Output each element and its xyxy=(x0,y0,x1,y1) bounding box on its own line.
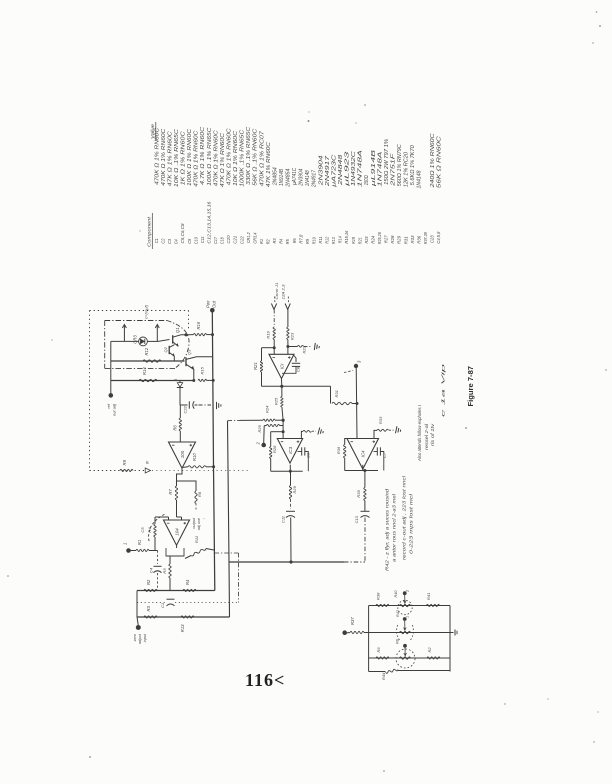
IC4 right pin to ground R33 xyxy=(374,430,377,438)
svg-text:R23: R23 xyxy=(364,236,369,243)
svg-text:↓: ↓ xyxy=(202,518,206,520)
up arrow (dashed link) right xyxy=(156,325,158,342)
svg-text:10K Ω .1% RN65C: 10K Ω .1% RN65C xyxy=(174,129,180,188)
svg-text:C3: C3 xyxy=(167,239,172,244)
svg-text:1: 1 xyxy=(123,543,128,545)
svg-text:C7: C7 xyxy=(382,452,387,458)
feedback bottom wire xyxy=(262,385,282,387)
IC4 input vertical xyxy=(355,366,358,439)
svg-text:input: input xyxy=(143,633,147,642)
svg-text:R1: R1 xyxy=(259,239,264,244)
svg-text:C21: C21 xyxy=(233,235,238,243)
resistor R14 xyxy=(139,379,157,381)
pot wiper arrow on dotted line xyxy=(145,468,150,473)
svg-text:R8: R8 xyxy=(197,491,202,497)
resistor R2 xyxy=(144,589,157,591)
ground at IC4 xyxy=(395,426,401,434)
svg-text:Pwr: Pwr xyxy=(206,300,211,308)
svg-text:R19: R19 xyxy=(351,237,356,244)
svg-text:CR1,2: CR1,2 xyxy=(246,232,251,243)
capacitor C1 xyxy=(167,598,175,600)
svg-text:output: output xyxy=(192,517,196,529)
svg-text:R37: R37 xyxy=(350,617,355,625)
svg-text:R2: R2 xyxy=(146,579,151,585)
node 2 terminal xyxy=(263,426,266,443)
svg-text:Q2: Q2 xyxy=(163,346,168,352)
resistor R4 vertical xyxy=(154,537,156,551)
IC3 right pin to ground R27 xyxy=(301,431,303,438)
svg-text:2N4917: 2N4917 xyxy=(312,170,318,188)
resistor R31 xyxy=(332,402,352,404)
svg-text:R29: R29 xyxy=(397,236,402,244)
svg-text:12A 2,3: 12A 2,3 xyxy=(281,284,286,300)
ground at IC3 xyxy=(318,428,324,436)
svg-text:CR3: CR3 xyxy=(133,335,138,344)
svg-text:C2: C2 xyxy=(161,238,166,243)
scan noise specks xyxy=(596,11,598,13)
svg-text:R4: R4 xyxy=(279,238,284,243)
svg-text:330K Ω .1% RN65C: 330K Ω .1% RN65C xyxy=(246,126,252,184)
main vertical bus wire xyxy=(212,310,215,590)
svg-text:150Ω: 150Ω xyxy=(364,175,370,185)
svg-text:Out: Out xyxy=(212,300,217,308)
svg-text:R11: R11 xyxy=(318,236,323,243)
resistor R9 in dotted line xyxy=(120,469,133,471)
dashed wire with C4 xyxy=(157,551,159,565)
svg-text:R21: R21 xyxy=(253,362,258,370)
pot R40 top xyxy=(400,604,411,606)
resistor R13 xyxy=(181,616,194,618)
outer dotted enclosure box xyxy=(90,310,189,312)
input pin chevron left xyxy=(271,304,276,310)
svg-text:1K Ω 1% RN60C: 1K Ω 1% RN60C xyxy=(181,131,187,186)
dash-dot wire down to LH1 xyxy=(364,518,366,562)
svg-text:Q3: Q3 xyxy=(187,349,192,355)
svg-text:R13: R13 xyxy=(331,237,336,244)
transistor Q1 darlington pair xyxy=(172,335,174,343)
dotted wiper continuation to C-network xyxy=(152,470,248,472)
svg-text:R5: R5 xyxy=(285,239,290,244)
left vertical wire of transistor block xyxy=(110,341,112,395)
svg-text:μA723C: μA723C xyxy=(331,154,337,188)
svg-text:C22: C22 xyxy=(239,236,244,244)
svg-text:0-223 mps lost mcl: 0-223 mps lost mcl xyxy=(409,492,414,554)
svg-text:R9: R9 xyxy=(122,459,127,465)
svg-text:ICI: ICI xyxy=(279,363,284,369)
svg-text:out adj: out adj xyxy=(112,404,117,416)
svg-text:C12,C13,14,15,16: C12,C13,14,15,16 xyxy=(207,201,212,243)
svg-text:470K Ω 1% RN60C: 470K Ω 1% RN60C xyxy=(194,130,200,186)
op-amp IC2B xyxy=(169,442,196,468)
svg-text:C6: C6 xyxy=(306,452,311,458)
svg-text:2N4848: 2N4848 xyxy=(338,155,344,187)
svg-text:R13: R13 xyxy=(180,624,185,632)
svg-text:adjust: adjust xyxy=(138,633,142,644)
svg-text:R28: R28 xyxy=(272,445,277,453)
branch to output adjust R8 xyxy=(177,481,197,491)
feedback resistor R36 xyxy=(345,439,347,445)
lower network row 2 xyxy=(137,616,230,618)
resistor R43 xyxy=(376,657,389,659)
pot R42 middle xyxy=(400,631,411,633)
IC3 input wire xyxy=(282,420,284,438)
svg-text:R19: R19 xyxy=(266,331,271,339)
capacitor C13 xyxy=(361,510,370,512)
svg-text:Also attends follow expholes I: Also attends follow expholes I xyxy=(417,404,422,462)
input terminal lower xyxy=(136,625,141,630)
svg-text:c=(mμf): c=(mμf) xyxy=(144,304,149,319)
svg-text:R11: R11 xyxy=(194,536,199,543)
svg-text:C22: C22 xyxy=(183,405,188,413)
left vertical of lower network xyxy=(136,591,138,618)
svg-text:470K Ω 1% RN60C: 470K Ω 1% RN60C xyxy=(161,128,167,185)
svg-text:2N4854: 2N4854 xyxy=(272,167,278,186)
ground at IC1 pin xyxy=(314,343,319,351)
svg-text:record c-out adj , 223 lost nn: record c-out adj , 223 lost nncl xyxy=(402,475,407,560)
svg-text:R39: R39 xyxy=(356,490,361,498)
svg-text:R3: R3 xyxy=(272,238,277,243)
resistor R7 xyxy=(175,486,177,500)
wire R12 row / Q2 base-collector xyxy=(111,360,185,362)
IC4 bottom loop xyxy=(345,470,378,472)
svg-text:R28: R28 xyxy=(390,235,395,243)
svg-text:C8: C8 xyxy=(296,366,301,372)
svg-text:adj use: adj use xyxy=(197,518,201,530)
svg-text:R1: R1 xyxy=(137,540,142,545)
svg-text:116<: 116< xyxy=(245,670,285,690)
svg-text:C20: C20 xyxy=(226,235,231,243)
svg-text:R12: R12 xyxy=(144,347,149,355)
svg-text:R7,8: R7,8 xyxy=(298,234,303,243)
node 3 terminal xyxy=(354,364,358,368)
svg-text:12K 1% RC20: 12K 1% RC20 xyxy=(404,152,410,187)
svg-text:2N3904: 2N3904 xyxy=(299,168,305,186)
svg-text:R6: R6 xyxy=(376,647,381,653)
svg-text:R26: R26 xyxy=(257,424,262,432)
wire lower row xyxy=(111,380,194,382)
svg-text:c 1a Vip: c 1a Vip xyxy=(441,363,446,417)
resistor R41 xyxy=(427,604,440,606)
svg-text:R3: R3 xyxy=(146,605,151,611)
svg-text:47K Ω 1% RN60C: 47K Ω 1% RN60C xyxy=(220,133,226,188)
IC3 feedback top wire xyxy=(271,431,283,433)
svg-text:105: 105 xyxy=(180,450,185,458)
IC4 output chain R39 xyxy=(364,471,366,488)
svg-text:100K Ω 1% RN60C: 100K Ω 1% RN60C xyxy=(187,129,193,186)
svg-text:R7: R7 xyxy=(168,489,173,495)
svg-text:470K Ω 1% RN60C: 470K Ω 1% RN60C xyxy=(213,130,219,186)
bridge right vertical xyxy=(449,606,451,672)
svg-text:rls of 1tv: rls of 1tv xyxy=(430,423,435,446)
svg-text:47K Ω 1% RN60C: 47K Ω 1% RN60C xyxy=(167,131,173,187)
svg-text:R6: R6 xyxy=(292,238,297,243)
pot R45 bottom xyxy=(400,657,411,659)
op-amp IC4 xyxy=(347,439,379,470)
svg-text:470K Ω 1% RN60C: 470K Ω 1% RN60C xyxy=(154,127,160,184)
svg-text:4.7K Ω 1% RN60C: 4.7K Ω 1% RN60C xyxy=(200,126,206,185)
power output terminal xyxy=(210,308,215,313)
input pin chevron right xyxy=(285,304,290,310)
capacitor C22 to ground xyxy=(180,404,188,406)
svg-text:R41: R41 xyxy=(426,593,431,600)
bridge mid-row right terminal xyxy=(450,632,454,634)
svg-text:R37,39: R37,39 xyxy=(423,232,428,244)
svg-text:R23: R23 xyxy=(290,332,295,340)
resistor R3 xyxy=(144,616,157,618)
svg-text:Component: Component xyxy=(147,216,153,247)
svg-text:R5: R5 xyxy=(162,568,167,574)
svg-text:104: 104 xyxy=(174,528,179,536)
IC3 output chain R29 xyxy=(290,471,292,485)
svg-text:R27: R27 xyxy=(384,235,389,243)
feedback resistor R21 xyxy=(261,348,263,361)
resistor R12b xyxy=(183,589,196,591)
svg-text:10K Ω 1% RN60C: 10K Ω 1% RN60C xyxy=(233,130,239,186)
feedback wire top IC1A xyxy=(262,347,275,349)
resistor R37 xyxy=(350,631,364,633)
svg-text:56K Ω RN60C: 56K Ω RN60C xyxy=(436,136,442,189)
svg-text:R24: R24 xyxy=(265,405,270,413)
junction dot xyxy=(192,379,195,382)
svg-text:1N4932C: 1N4932C xyxy=(351,151,357,187)
svg-text:μL923: μL923 xyxy=(345,151,351,188)
svg-text:R12: R12 xyxy=(325,236,330,243)
svg-text:R2: R2 xyxy=(266,239,271,244)
svg-text:C5,C6,C8: C5,C6,C8 xyxy=(180,223,185,243)
resistor R10 to bus xyxy=(182,466,188,469)
svg-text:R38: R38 xyxy=(376,592,381,600)
wire to ground right xyxy=(288,346,298,348)
svg-text:R33: R33 xyxy=(410,235,415,243)
svg-text:R14: R14 xyxy=(338,236,343,243)
svg-text:IC4: IC4 xyxy=(361,450,366,457)
svg-text:5.6KΩ 1% 7K70: 5.6KΩ 1% 7K70 xyxy=(410,145,416,185)
svg-text:CR3,4: CR3,4 xyxy=(252,232,257,243)
op-amp IC1 xyxy=(269,354,294,378)
transistor Q3 xyxy=(185,357,187,366)
IC3 bottom loop wire xyxy=(271,470,303,472)
svg-text:a antor rous nncl 2-a3 mel: a antor rous nncl 2-a3 mel xyxy=(392,493,397,562)
svg-text:560Ω 1% RN79C: 560Ω 1% RN79C xyxy=(397,144,403,186)
dash-dot branch xyxy=(215,552,239,554)
svg-text:150Ω 2W 797 1%: 150Ω 2W 797 1% xyxy=(384,138,390,185)
svg-text:R33: R33 xyxy=(378,416,383,424)
junction dots at op-amp inputs xyxy=(273,346,276,349)
feedback resistor R28 xyxy=(270,432,272,447)
op-amp IC3 xyxy=(277,439,302,464)
svg-text:1N748A: 1N748A xyxy=(358,149,364,187)
bridge middle row xyxy=(369,632,450,634)
resistor R16 xyxy=(194,333,207,335)
resistor R5 vertical xyxy=(169,556,171,564)
svg-text:1N914B: 1N914B xyxy=(279,168,285,186)
resistor R15 xyxy=(198,379,207,381)
svg-text:C18: C18 xyxy=(220,237,225,244)
svg-text:R31: R31 xyxy=(403,236,408,244)
svg-text:IC3: IC3 xyxy=(288,446,293,453)
input terminal R37 xyxy=(342,630,347,635)
svg-text:R42: R42 xyxy=(396,609,400,617)
svg-text:C4: C4 xyxy=(149,567,154,573)
svg-text:R6: R6 xyxy=(173,425,178,431)
svg-text:R44: R44 xyxy=(381,672,386,680)
svg-text:R4: R4 xyxy=(185,579,190,585)
resistor R23 vertical xyxy=(287,310,289,328)
capacitor C4 xyxy=(154,565,162,567)
inner dash-dot module boundary xyxy=(105,320,167,322)
zener CR4 xyxy=(179,381,181,383)
ground symbol at C22 xyxy=(217,402,221,409)
svg-text:C5: C5 xyxy=(140,527,145,533)
svg-text:R10: R10 xyxy=(311,237,316,244)
svg-text:C9: C9 xyxy=(187,238,192,243)
svg-text:R25,26: R25,26 xyxy=(377,232,382,244)
op-amp IC1A xyxy=(177,516,182,518)
svg-text:R42 - z flyr, adj a suces rou: R42 - z flyr, adj a suces rousind xyxy=(385,488,390,571)
wire from IC1 output to R31 xyxy=(330,386,332,403)
svg-text:C11: C11 xyxy=(281,516,286,523)
junction dot Q1 collector xyxy=(184,333,187,336)
svg-text:C11: C11 xyxy=(200,236,205,243)
svg-text:2N4854: 2N4854 xyxy=(286,168,292,187)
resistor R25 vertical xyxy=(281,386,283,396)
svg-text:1: 1 xyxy=(406,616,410,618)
svg-text:R40: R40 xyxy=(394,590,398,598)
svg-text:R15: R15 xyxy=(200,366,205,374)
long horizontal wire LH1 xyxy=(229,561,344,563)
resistor R26 row xyxy=(264,425,266,427)
wire CR3 row xyxy=(111,340,139,342)
svg-text:47K 1% RN60C: 47K 1% RN60C xyxy=(266,142,272,187)
resistor R1 xyxy=(131,550,137,552)
svg-text:C17: C17 xyxy=(213,237,218,244)
svg-text:C1: C1 xyxy=(160,603,165,608)
svg-text:R9: R9 xyxy=(305,239,310,244)
svg-text:470K Ω 1% RC07: 470K Ω 1% RC07 xyxy=(259,131,265,186)
svg-text:100K Ω .1% RN65C: 100K Ω .1% RN65C xyxy=(207,127,213,185)
diode CR3 xyxy=(139,337,148,346)
reference output terminal xyxy=(109,393,114,398)
svg-text:C13: C13 xyxy=(354,515,359,523)
svg-text:1000K .1% RN65C: 1000K .1% RN65C xyxy=(240,129,246,187)
right vertical dash-dot bus xyxy=(228,421,230,617)
compensation capacitor C7 xyxy=(376,447,378,455)
svg-text:R25: R25 xyxy=(274,397,279,405)
junction of IC3 output at LH1 xyxy=(289,560,292,563)
svg-text:2N3904: 2N3904 xyxy=(318,155,324,187)
svg-text:zero: zero xyxy=(133,634,137,642)
svg-text:R24: R24 xyxy=(371,235,376,243)
svg-text:R16: R16 xyxy=(196,321,201,329)
compensation capacitor C6 xyxy=(301,447,303,455)
svg-text:μA741C: μA741C xyxy=(292,168,298,186)
terminal 1 input xyxy=(126,548,131,553)
dotted middle row with C1 xyxy=(137,602,166,604)
bridge left vertical xyxy=(368,606,370,672)
svg-text:1N4148: 1N4148 xyxy=(417,170,423,188)
svg-text:C4,5,8: C4,5,8 xyxy=(436,231,441,243)
wire to LH1 xyxy=(290,518,292,563)
svg-text:μL914B: μL914B xyxy=(371,149,377,188)
svg-text:R15,16: R15,16 xyxy=(344,230,349,243)
svg-text:R10: R10 xyxy=(192,453,197,461)
resistor R6 vertical to op-amp IC2B xyxy=(179,405,181,418)
svg-text:Q1: Q1 xyxy=(175,327,180,333)
compensation capacitor C8 xyxy=(294,356,296,363)
IC2B output wire down xyxy=(177,468,183,487)
svg-text:R36: R36 xyxy=(336,446,341,454)
svg-text:56K Ω .1% RN60C: 56K Ω .1% RN60C xyxy=(253,128,259,186)
resistor R19 vertical xyxy=(273,310,275,328)
svg-text:1N4148: 1N4148 xyxy=(305,170,311,186)
bridge bottom edge with R46 xyxy=(369,671,386,673)
resistor R38 xyxy=(376,604,389,606)
wire LH2 with R24 xyxy=(228,419,241,421)
svg-text:C1: C1 xyxy=(154,238,159,243)
svg-text:470K Ω 1% RN60C: 470K Ω 1% RN60C xyxy=(227,128,233,185)
svg-text:2N4917: 2N4917 xyxy=(325,156,331,188)
bridge top row xyxy=(369,605,450,607)
svg-text:R2: R2 xyxy=(427,647,432,653)
svg-text:ressel 2-al: ressel 2-al xyxy=(424,423,429,450)
svg-text:240Ω 1% RN60C: 240Ω 1% RN60C xyxy=(430,133,436,189)
svg-text:C4: C4 xyxy=(174,239,179,244)
capacitor C5 dashed xyxy=(149,514,165,541)
svg-text:1N748A: 1N748A xyxy=(377,150,383,186)
svg-text:Figure 7-87: Figure 7-87 xyxy=(466,366,475,407)
svg-text:R21: R21 xyxy=(357,237,362,244)
svg-text:R36: R36 xyxy=(416,235,421,243)
IC1 output node xyxy=(280,378,282,387)
svg-text:R31: R31 xyxy=(334,390,339,397)
capacitor C11 xyxy=(286,510,295,512)
svg-text:C23: C23 xyxy=(430,235,435,243)
up arrow (dashed link) left xyxy=(123,325,125,342)
resistor R12 xyxy=(143,360,161,362)
svg-text:R29: R29 xyxy=(292,485,297,493)
tilted resistor R17 to bus xyxy=(191,549,206,556)
lower network row 1 xyxy=(137,590,215,592)
IC1A package outline xyxy=(166,548,184,556)
svg-text:C10: C10 xyxy=(193,237,198,244)
svg-text:R14: R14 xyxy=(142,367,147,375)
svg-text:2N751F: 2N751F xyxy=(391,152,397,187)
resistor R44 xyxy=(427,657,440,659)
output wire right xyxy=(282,385,331,387)
bridge bottom row xyxy=(369,657,450,659)
svg-text:R22: R22 xyxy=(302,345,307,353)
